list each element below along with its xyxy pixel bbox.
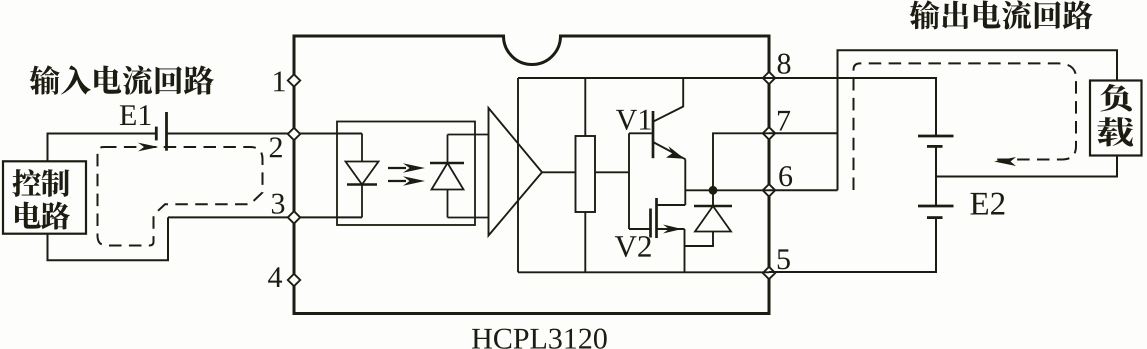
output loop arrow bbox=[994, 157, 1016, 166]
wire load bottom to battery mid bbox=[936, 156, 1117, 177]
LED vertical leads bbox=[361, 134, 363, 162]
battery E2 cell 1 bbox=[935, 129, 937, 136]
label kongzhi bbox=[12, 169, 69, 197]
label dianlu bbox=[15, 202, 70, 230]
photodiode cathode bar bbox=[430, 162, 464, 165]
label V2 bbox=[615, 236, 651, 257]
transistor V2 bbox=[629, 228, 651, 230]
pin 4 bbox=[288, 274, 300, 286]
wire amp output to resistor bbox=[542, 171, 576, 173]
base vertical wire bbox=[628, 133, 630, 229]
label shuru bbox=[30, 65, 214, 94]
load text 负载 bbox=[1097, 84, 1133, 146]
resistor R1 body bbox=[576, 136, 596, 212]
diode D1 triangle bbox=[695, 206, 731, 232]
diode anode connection bbox=[685, 232, 714, 247]
bottom rail (pin 5) bbox=[518, 271, 769, 273]
control circuit box 控制电路 bbox=[3, 161, 86, 233]
photodiode triangle bbox=[432, 163, 464, 190]
light arrow lower bbox=[388, 180, 406, 182]
amplifier U1 triangle bbox=[489, 108, 543, 236]
wire pin 8 to battery E2 top bbox=[769, 78, 936, 129]
node junction dot bbox=[709, 186, 718, 195]
battery E1 bbox=[155, 127, 158, 141]
pin 1 bbox=[288, 74, 300, 86]
label E2 bbox=[970, 193, 1004, 215]
pin 8 bbox=[763, 72, 775, 84]
V1 emitter / V2 drain vertical bbox=[684, 159, 686, 205]
output node wire to pin 6 bbox=[685, 189, 769, 191]
photodiode leads and wires to amplifier bbox=[447, 135, 449, 164]
wire return to control box bbox=[48, 217, 169, 260]
wire pin 3 / LED cathode return bbox=[168, 216, 362, 218]
stage left vertical bbox=[517, 78, 519, 272]
wire node to pin 7 bbox=[713, 133, 769, 190]
label shuchu bbox=[910, 0, 1093, 29]
diode D1 (clamp) leads bbox=[712, 190, 714, 206]
label E1 bbox=[120, 105, 151, 125]
wires pins 6,7 tied to load bbox=[769, 132, 838, 134]
input current loop dashed path bbox=[98, 147, 263, 246]
wire E1 to pin 2 and LED anode bbox=[167, 133, 363, 135]
LED cathode bar bbox=[347, 183, 377, 186]
wire control box top to E1 bbox=[48, 134, 157, 162]
pin 2 bbox=[288, 128, 300, 140]
transistor V1 (NPN) bbox=[629, 132, 653, 134]
pin 7 bbox=[763, 127, 775, 139]
IC body HCPL3120 with index notch bbox=[294, 36, 769, 314]
output current loop dashed path bbox=[854, 63, 1077, 190]
diode D1 cathode bar bbox=[694, 205, 732, 208]
LED triangle (emitter diode) bbox=[346, 162, 379, 185]
input loop arrow bbox=[138, 143, 159, 152]
top rail (pin 8) bbox=[518, 77, 769, 79]
label V1 bbox=[616, 110, 651, 130]
wire battery bottom to pin 5 bbox=[769, 218, 936, 272]
optocoupler inner box bbox=[337, 122, 475, 226]
light arrow upper bbox=[388, 167, 406, 169]
pin 6 bbox=[763, 184, 775, 196]
load box 负载 bbox=[1090, 81, 1142, 156]
pin 5 bbox=[763, 267, 775, 279]
wire resistor to base node bbox=[595, 171, 629, 173]
pin 3 bbox=[288, 211, 300, 223]
resistor leads bbox=[584, 78, 586, 136]
label HCPL3120 bbox=[472, 329, 607, 349]
battery E2 cell 2 bbox=[935, 177, 937, 207]
